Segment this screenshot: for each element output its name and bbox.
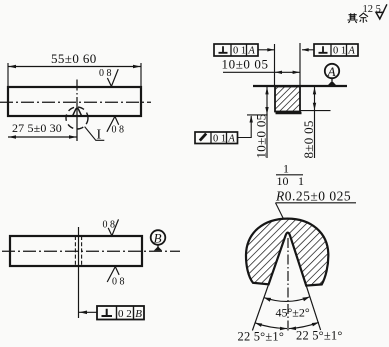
svg-text:0 8: 0 8 [112,277,125,288]
lower-left FCF slash 0.1 A [195,132,238,144]
svg-text:0 1: 0 1 [213,133,226,144]
svg-text:8±0 05: 8±0 05 [301,120,316,158]
right lower reference line [300,110,331,112]
leader to tip [276,203,288,227]
roughness 0.8 bottom view1 [107,116,119,131]
dim 27.5 line [8,136,77,138]
22.5 arcs [255,323,287,329]
datum B symbol [151,230,166,245]
detail centerline [287,238,289,332]
svg-text:A: A [227,133,235,144]
left lower reference line [247,114,268,116]
svg-text:55±0 60: 55±0 60 [51,51,97,66]
svg-text:0 8: 0 8 [112,125,125,136]
top dimension line 10 [223,71,300,73]
svg-text:0 1: 0 1 [233,46,246,57]
left vertical dimension line 10 [266,87,268,159]
svg-text:22 5°±1°: 22 5°±1° [296,329,343,343]
leader left FCF [258,49,274,51]
roughness 0.8 top view1 [107,69,118,86]
hatched square [275,87,300,112]
leader right FCF [302,49,314,51]
feature control frame perp 0.2 B [97,306,144,320]
right flank extension [306,286,320,330]
dim 27.5 arrows [8,135,76,138]
45 degree arc [264,297,310,302]
svg-text:I: I [97,128,102,143]
svg-text:1: 1 [298,174,304,188]
roughness 0.8 top view2 [108,219,118,235]
svg-text:B: B [154,230,162,245]
bar outline view1 [8,87,141,116]
bar outline view2 [10,236,142,266]
svg-text:12 5: 12 5 [363,4,381,15]
thick groove bottom line [276,112,302,115]
dim 55 extension lines [8,63,141,87]
svg-text:0 1: 0 1 [333,46,346,57]
text qiyu (CJK drawn) [348,13,369,23]
svg-text:10: 10 [277,174,289,188]
leader frame B [79,311,97,313]
svg-text:A: A [347,46,355,57]
svg-text:0 2: 0 2 [118,308,132,320]
datum A symbol [325,64,339,78]
top surface line [253,85,347,87]
svg-text:R0.25±0 025: R0.25±0 025 [275,188,351,203]
detail circle I [66,107,88,129]
right FCF perp 0.1 A [314,44,358,56]
groove axis line view1 [76,80,78,142]
leader lower-left FCF [238,116,252,138]
dim 55 arrows [8,65,140,68]
svg-text:0 8: 0 8 [99,68,112,79]
svg-text:0 8: 0 8 [103,220,116,231]
svg-text:10±0 05: 10±0 05 [222,56,269,71]
svg-text:10±0 05: 10±0 05 [254,114,269,159]
leader end dot at notch tip [285,225,289,229]
leader to label I [85,127,105,141]
svg-text:27 5±0 30: 27 5±0 30 [12,121,62,135]
svg-text:A: A [327,64,336,79]
hidden groove lines view2 [75,236,81,266]
leader underline [276,202,357,204]
centerline view2 [2,250,180,252]
dome hatched body [246,219,328,286]
left flank extension [252,284,268,330]
svg-text:22 5°±1°: 22 5°±1° [238,330,285,344]
left FCF perp 0.1 A [214,44,258,56]
roughness 0.8 bottom view2 [107,267,119,282]
extension lines above square [275,43,301,86]
svg-text:B: B [135,308,142,320]
groove axis line view2 [78,227,80,318]
roughness check symbol [376,12,383,19]
svg-text:A: A [247,46,255,57]
svg-text:45°±2°: 45°±2° [276,306,310,320]
notch view1 [73,108,82,116]
centerline view1 [0,101,151,103]
right vertical dimension line 8 [314,87,316,159]
dim 55 line [8,66,141,68]
